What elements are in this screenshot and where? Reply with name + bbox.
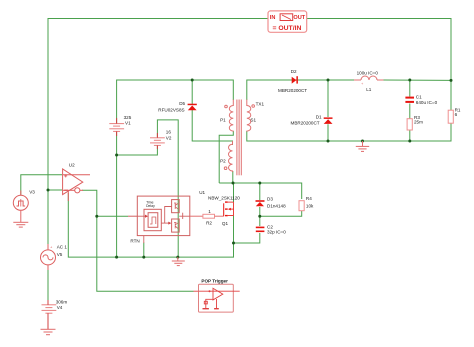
svg-text:10k: 10k	[306, 203, 314, 208]
wire minus input from left vertical	[48, 189, 62, 191]
resistor R3	[407, 119, 412, 130]
wire secondary top rail	[247, 80, 354, 100]
wire U2 output to U1 input	[82, 190, 128, 216]
svg-text:RTN: RTN	[130, 239, 139, 244]
svg-text:C1: C1	[416, 95, 422, 100]
svg-text:Q1: Q1	[222, 221, 229, 226]
wire V3 to U2 plus input	[21, 175, 62, 196]
svg-text:25m: 25m	[414, 120, 423, 125]
svg-text:V1: V1	[125, 121, 131, 126]
svg-text:V2: V2	[166, 136, 172, 141]
svg-text:IN: IN	[270, 15, 276, 21]
svg-text:Delay: Delay	[146, 204, 155, 208]
svg-text:D5: D5	[179, 101, 185, 106]
svg-text:= OUT/IN: = OUT/IN	[273, 25, 302, 32]
svg-text:V3: V3	[29, 189, 35, 194]
svg-text:OUT: OUT	[293, 15, 305, 21]
wire D5 top branch	[191, 80, 193, 104]
svg-text:AC 1: AC 1	[57, 245, 68, 250]
svg-text:325: 325	[124, 115, 132, 120]
wire R1 branch	[450, 80, 452, 110]
wire V1 bottom to mid junction	[117, 132, 158, 155]
svg-text:D3: D3	[267, 196, 273, 201]
wire C1 R3 branch	[409, 80, 411, 97]
wire D1 branch	[327, 80, 329, 117]
svg-text:1: 1	[208, 209, 211, 214]
diode D1	[291, 114, 333, 125]
capacitor C2	[256, 227, 265, 233]
node junction dots	[47, 79, 453, 259]
AC source V5	[41, 250, 56, 265]
pulse source V3	[13, 195, 28, 210]
svg-text:RFU02VS8S: RFU02VS8S	[158, 108, 184, 113]
probe IN OUT box	[268, 11, 307, 32]
ground under V3	[13, 210, 28, 227]
wire Q1 source down to RTN corner	[68, 193, 233, 257]
ground RTN rail	[172, 257, 185, 266]
ground output rail	[356, 141, 369, 151]
svg-text:D2: D2	[291, 69, 297, 74]
resistor R4	[299, 201, 304, 211]
svg-text:MBR20200CT: MBR20200CT	[278, 88, 307, 93]
op-amp U2	[63, 169, 90, 201]
wire P1 bottom to drain rail	[219, 131, 233, 183]
svg-text:TX1: TX1	[256, 102, 265, 107]
wire V2 top over U1 down to RTN	[157, 120, 178, 257]
svg-text:P2: P2	[220, 158, 226, 163]
svg-text:L1: L1	[366, 87, 372, 92]
wire U1 RTN pin	[143, 243, 145, 258]
svg-text:D1: D1	[316, 114, 322, 119]
diode D2	[278, 69, 307, 93]
svg-text:NBW_2SK1120: NBW_2SK1120	[208, 196, 240, 201]
diode D5	[158, 101, 197, 113]
svg-text:6: 6	[455, 112, 458, 117]
svg-text:S1: S1	[250, 117, 256, 122]
wire V5 to V4	[47, 265, 49, 304]
svg-text:640u IC=0: 640u IC=0	[416, 100, 438, 105]
wire secondary bottom rail	[247, 123, 451, 141]
svg-text:V4: V4	[57, 305, 63, 310]
battery V4	[42, 300, 57, 329]
svg-text:306m: 306m	[56, 299, 68, 304]
svg-text:100u IC=0: 100u IC=0	[357, 71, 379, 76]
capacitor C1	[405, 97, 414, 103]
ground under V4	[41, 329, 56, 334]
wire mid node to R4 bottom	[260, 211, 302, 216]
wire D3 top	[259, 183, 261, 200]
wire C2 bottom branch	[234, 233, 260, 243]
wire Q1 drain	[233, 183, 235, 202]
svg-text:MBR20200CT: MBR20200CT	[291, 121, 320, 126]
svg-text:U1: U1	[199, 190, 205, 195]
wire drain rail	[219, 183, 302, 199]
resistor R2	[190, 215, 203, 217]
svg-text:R4: R4	[306, 196, 312, 201]
svg-text:V5: V5	[57, 252, 63, 257]
battery V2	[150, 133, 165, 149]
svg-text:POP Trigger: POP Trigger	[201, 279, 228, 284]
svg-text:16: 16	[166, 130, 172, 135]
wire P2 bottom to drain rail	[232, 171, 234, 183]
battery V1	[109, 118, 124, 136]
svg-text:R2: R2	[206, 221, 212, 226]
transistor Q1	[224, 202, 234, 216]
svg-text:32p IC=0: 32p IC=0	[267, 230, 286, 235]
svg-text:U2: U2	[69, 163, 75, 168]
U1 time delay block	[137, 196, 190, 243]
wire top sense loop	[48, 19, 451, 251]
diode D3	[256, 196, 287, 208]
resistor R1	[448, 110, 453, 123]
wire mid junction down to RTN	[116, 155, 118, 257]
transformer TX1	[224, 100, 254, 176]
wire U2 output down to POP trigger	[97, 216, 194, 291]
wire D5 bottom to P2 top	[192, 110, 232, 145]
inductor L1	[354, 76, 384, 80]
wire secondary top rail right of L1	[384, 79, 452, 81]
wire D3 R4 mid node	[259, 207, 261, 226]
svg-text:D1n4148: D1n4148	[267, 203, 286, 208]
wire primary top rail	[117, 80, 234, 123]
svg-text:P1: P1	[220, 117, 226, 122]
